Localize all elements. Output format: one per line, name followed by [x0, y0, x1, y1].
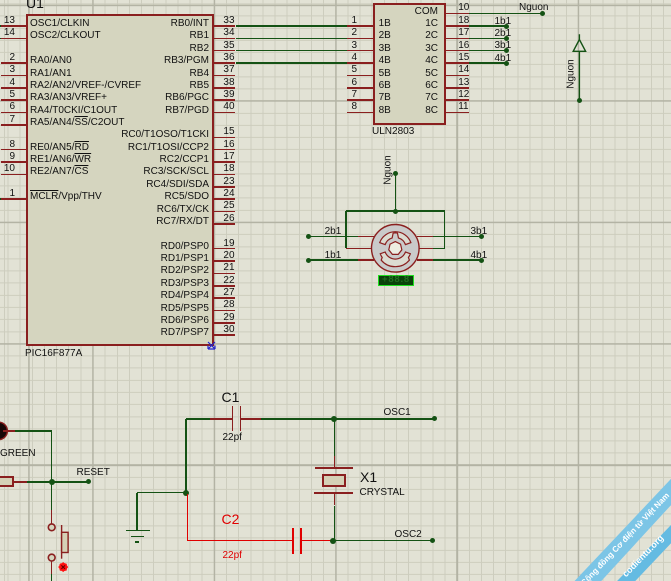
label 1b1	[495, 17, 512, 27]
label RESET	[77, 468, 110, 478]
label U1	[26, 0, 44, 10]
motor stub right-bottom	[417, 259, 434, 261]
power symbol Nguon (arrow)	[566, 30, 596, 105]
junction below C1	[183, 490, 189, 496]
node on Nguon power line	[577, 98, 582, 103]
wire 2b1 to motor	[308, 236, 358, 238]
label C1	[222, 390, 240, 404]
wire common rail top	[346, 210, 445, 212]
U1 pin 13 OSC1/CLKIN	[1, 25, 26, 27]
wire down to crystal	[334, 419, 336, 456]
wire C1 left drop	[185, 419, 187, 493]
ULN2803 pin 7 7B	[347, 99, 373, 101]
U1 pin 20 RD1/PSP1	[214, 260, 236, 262]
U1 pin 28 RD5/PSP5	[214, 310, 236, 312]
label Nguon	[519, 3, 548, 13]
motor stub left-top	[358, 236, 375, 238]
origin marker (blue)	[205, 338, 221, 354]
wire common rail right drop	[444, 211, 446, 248]
U1 pin 10 RE2/AN7/CS	[1, 174, 26, 176]
U1 pin 1 MCLR/Vpp/THV	[1, 198, 26, 200]
wire to OSC1 net (left edge)	[0, 25, 1, 27]
U1 pin 17 RC2/CCP1	[214, 161, 236, 163]
wire vertical to reset junction	[51, 431, 53, 510]
LED stub	[3, 430, 15, 432]
U1 pin 8 RE0/AN5/RD	[1, 149, 26, 151]
wire to MCLR net (left edge)	[0, 198, 1, 200]
wire junction to button	[51, 510, 53, 524]
motor stub left-mid	[346, 248, 372, 250]
wire 2C output	[469, 38, 506, 40]
U1 pin 36 RB3/PGM	[214, 62, 236, 64]
ULN2803 pin 13 6C	[446, 87, 470, 89]
wire 1C output	[469, 25, 506, 27]
LED D1 GREEN	[0, 420, 12, 442]
wire to RESET label	[52, 481, 89, 483]
label OSC1	[384, 408, 411, 418]
label ULN2803	[372, 127, 414, 137]
wire red junction down	[187, 494, 189, 542]
ULN2803 pin 17 2C	[446, 38, 470, 40]
U1 pin 29 RD6/PSP6	[214, 322, 236, 324]
wire Nguon to motor common	[395, 174, 397, 211]
label C2	[222, 512, 240, 526]
U1 pin 15 RC0/T1OSO/T1CKI	[214, 137, 236, 139]
U1 pin 34 RB1	[214, 38, 236, 40]
label 4b1	[471, 251, 488, 261]
wire common rail left drop	[345, 211, 347, 248]
resistor R1	[0, 476, 14, 486]
wire ground to junction	[137, 492, 186, 494]
U1 pin 19 RD0/PSP0	[214, 248, 236, 250]
op-amp U1 PIC16F877A microcontroller body	[26, 14, 214, 346]
wire resistor to junction	[27, 481, 52, 483]
label 3b1	[471, 227, 488, 237]
label 4b1	[495, 54, 512, 64]
label 22pf	[223, 433, 242, 443]
U1 pin 5 RA3/AN3/VREF+	[1, 99, 26, 101]
U1 pin 39 RB6/PGC	[214, 99, 236, 101]
ULN2803 pin 15 4C	[446, 62, 470, 64]
motor stub right-mid	[419, 248, 433, 250]
junction RESET	[49, 479, 55, 485]
motor stub left-bottom	[358, 259, 375, 261]
U1 pin 3 RA1/AN1	[1, 75, 26, 77]
wire button down (red)	[51, 561, 53, 574]
motor M1 stepper motor symbol	[360, 212, 432, 285]
ULN2803 pin 6 6B	[347, 87, 373, 89]
node 1b1	[306, 258, 311, 263]
ULN2803 pin 14 5C	[446, 75, 470, 77]
ULN2803 pin 18 1C	[446, 25, 470, 27]
ULN2803 pin 1 1B	[347, 25, 373, 27]
label 2b1	[495, 29, 512, 39]
ULN2803 pin 10 COM	[446, 13, 470, 15]
node 1b1	[504, 24, 509, 29]
U1 pin 23 RC4/SDI/SDA	[214, 186, 236, 188]
wire 3C output	[469, 50, 506, 52]
label 3b1	[495, 41, 512, 51]
capacitor C1	[210, 418, 232, 420]
node Nguon above motor	[393, 171, 398, 176]
U1 pin 16 RC1/T1OSI/CCP2	[214, 149, 236, 151]
ULN2803 pin 4 4B	[347, 62, 373, 64]
label 22pf (red)	[223, 551, 242, 561]
junction OSC1/crystal	[331, 416, 337, 422]
crystal X1	[334, 456, 336, 468]
label GREEN	[0, 449, 36, 459]
ULN2803 pin 2 2B	[347, 38, 373, 40]
node 4b1	[504, 61, 509, 66]
ULN2803 pin 16 3C	[446, 50, 470, 52]
label X1	[360, 470, 377, 484]
wire RB0 to ULN 1B	[236, 25, 347, 27]
node OSC1	[432, 416, 437, 421]
ULN2803 pin 8 8B	[347, 112, 373, 114]
node 4b1	[479, 258, 484, 263]
wire crystal to OSC1	[334, 418, 434, 420]
wire RB1 to ULN 2B	[236, 38, 347, 40]
motor display +88.8	[378, 275, 413, 286]
node OSC2	[430, 538, 435, 543]
U1 pin 37 RB4	[214, 75, 236, 77]
U1 pin 40 RB7/PGD	[214, 112, 236, 114]
ULN2803 pin 12 7C	[446, 99, 470, 101]
U1 pin 30 RD7/PSP7	[214, 334, 236, 336]
label PIC16F877A	[25, 349, 82, 359]
motor stub right-top	[417, 236, 434, 238]
U1 pin 4 RA2/AN2/VREF-/CVREF	[1, 87, 26, 89]
label 1b1	[325, 251, 342, 261]
U1 pin 33 RB0/INT	[214, 25, 236, 27]
wire to OSC2	[333, 540, 432, 542]
junction motor common rail	[393, 209, 398, 214]
wire LED to reset node	[15, 430, 52, 432]
U1 pin 18 RC3/SCK/SCL	[214, 174, 236, 176]
U1 pin 21 RD2/PSP2	[214, 273, 236, 275]
wire red to C2	[187, 540, 293, 542]
wire 4C output	[469, 62, 506, 64]
wire C1 to crystal top	[261, 418, 334, 420]
node 3b1	[504, 48, 509, 53]
node 3b1	[479, 234, 484, 239]
label Nguon (vertical)	[567, 59, 577, 88]
marker red star	[58, 562, 69, 573]
wire COM to Nguon	[469, 13, 542, 15]
driver IC ULN2803 body	[373, 3, 446, 125]
wire RB2 to ULN 3B	[236, 50, 347, 52]
resistor stub	[14, 481, 27, 483]
wire 1b1 to motor	[308, 259, 358, 261]
U1 pin 6 RA4/T0CKI/C1OUT	[1, 112, 26, 114]
U1 pin 22 RD3/PSP3	[214, 285, 236, 287]
U1 pin 14 OSC2/CLKOUT	[1, 38, 26, 40]
U1 pin 9 RE1/AN6/WR	[1, 161, 26, 163]
U1 pin 26 RC7/RX/DT	[214, 223, 236, 225]
capacitor C2 (red)	[292, 528, 294, 554]
label 2b1	[325, 227, 342, 237]
wire common right link	[433, 248, 445, 250]
node Nguon (COM)	[540, 11, 545, 16]
U1 pin 27 RD4/PSP4	[214, 297, 236, 299]
wire crystal bottom down	[334, 506, 336, 541]
ULN2803 pin 3 3B	[347, 50, 373, 52]
U1 pin 2 RA0/AN0	[1, 62, 26, 64]
ULN2803 pin 11 8C	[446, 112, 470, 114]
U1 pin 24 RC5/SDO	[214, 198, 236, 200]
wire to C1	[186, 418, 210, 420]
node 2b1	[306, 234, 311, 239]
wire motor to 4b1	[433, 259, 481, 261]
push button SW1	[40, 518, 75, 568]
node RESET	[86, 479, 91, 484]
wire to OSC2 net (left edge)	[0, 38, 1, 40]
junction OSC2/crystal	[330, 538, 336, 544]
U1 pin 25 RC6/TX/CK	[214, 211, 236, 213]
wire motor to 3b1	[433, 236, 481, 238]
label Nguon motor (vertical)	[384, 155, 394, 184]
label CRYSTAL	[360, 488, 405, 498]
wire RB3 to ULN 4B	[236, 62, 347, 64]
U1 pin 38 RB5	[214, 87, 236, 89]
wire button to bottom edge	[51, 574, 53, 581]
U1 pin 35 RB2	[214, 50, 236, 52]
ground	[136, 493, 138, 531]
U1 pin 7 RA5/AN4/SS/C2OUT	[1, 124, 26, 126]
label OSC2	[395, 530, 422, 540]
node 2b1	[504, 36, 509, 41]
ULN2803 pin 5 5B	[347, 75, 373, 77]
